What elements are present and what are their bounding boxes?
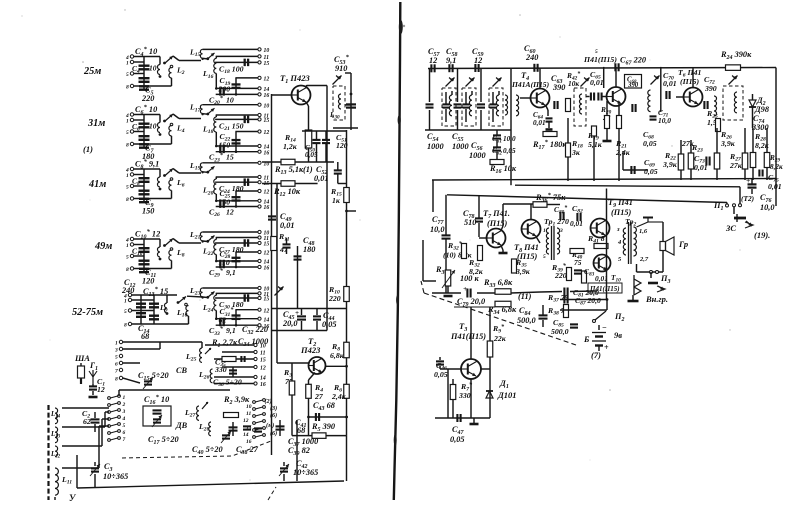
svg-text:3,9к: 3,9к: [515, 267, 531, 276]
svg-text:11: 11: [260, 351, 266, 357]
svg-text:14: 14: [260, 376, 266, 382]
svg-text:Д101: Д101: [497, 390, 517, 400]
svg-text:0,01: 0,01: [314, 174, 329, 183]
svg-text:10: 10: [264, 103, 270, 109]
svg-text:0,01: 0,01: [570, 219, 583, 228]
svg-text:5: 5: [115, 355, 118, 361]
svg-text:1,6: 1,6: [639, 228, 648, 235]
svg-text:8: 8: [126, 85, 129, 91]
svg-text:12: 12: [474, 56, 482, 65]
svg-text:7: 7: [115, 369, 118, 375]
svg-text:9в: 9в: [614, 330, 622, 340]
svg-text:12: 12: [264, 130, 270, 136]
svg-text:47: 47: [279, 245, 289, 254]
svg-text:68: 68: [297, 426, 306, 435]
svg-text:5: 5: [123, 423, 126, 429]
svg-text:390: 390: [552, 83, 565, 92]
svg-text:240: 240: [525, 53, 538, 62]
svg-text:1000: 1000: [427, 142, 444, 151]
svg-text:П423: П423: [300, 345, 321, 355]
svg-text:10,0: 10,0: [503, 135, 516, 143]
svg-text:0,01: 0,01: [663, 79, 677, 88]
svg-text:2,4к: 2,4к: [331, 392, 347, 401]
svg-text:500,0: 500,0: [551, 327, 569, 336]
svg-text:8,2к: 8,2к: [770, 163, 783, 171]
svg-text:22к: 22к: [493, 334, 507, 343]
svg-text:Вн.гр.: Вн.гр.: [645, 294, 668, 304]
svg-text:10,0: 10,0: [430, 225, 445, 234]
svg-text:12: 12: [260, 366, 266, 372]
svg-text:15: 15: [260, 358, 266, 364]
svg-text:Гр: Гр: [678, 239, 688, 249]
svg-text:+: +: [295, 309, 299, 317]
svg-text:16: 16: [260, 382, 266, 388]
svg-text:1000: 1000: [452, 142, 469, 151]
svg-text:П41А(П15): П41А(П15): [511, 80, 550, 89]
svg-text:15: 15: [226, 153, 234, 162]
svg-text:0,05: 0,05: [503, 147, 516, 155]
svg-text:8: 8: [115, 377, 118, 383]
svg-text:1,2к: 1,2к: [283, 142, 298, 151]
svg-text:20,0: 20,0: [282, 319, 298, 328]
svg-text:14: 14: [243, 432, 249, 438]
svg-text:12: 12: [243, 418, 249, 424]
svg-text:0,05: 0,05: [322, 320, 337, 329]
svg-text:5: 5: [124, 309, 127, 315]
svg-text:8: 8: [126, 197, 129, 203]
svg-text:5: 5: [543, 254, 546, 260]
svg-text:1: 1: [115, 341, 118, 347]
svg-text:10,0: 10,0: [760, 203, 775, 212]
svg-text:(1): (1): [303, 165, 313, 174]
svg-text:0,05: 0,05: [434, 370, 448, 379]
svg-text:10к: 10к: [568, 79, 579, 88]
svg-text:3,9к: 3,9к: [662, 160, 678, 169]
svg-text:0,05: 0,05: [643, 139, 657, 148]
svg-text:1: 1: [124, 299, 127, 305]
svg-text:10: 10: [149, 64, 157, 73]
svg-text:(П15): (П15): [487, 219, 508, 228]
svg-text:з: з: [616, 226, 620, 233]
svg-text:3: 3: [114, 348, 118, 354]
svg-text:5,1к: 5,1к: [588, 140, 603, 149]
svg-text:(2): (2): [265, 398, 272, 405]
svg-text:1: 1: [126, 173, 129, 179]
svg-text:120: 120: [142, 277, 154, 286]
svg-text:10: 10: [246, 404, 252, 410]
svg-text:41м: 41м: [88, 179, 106, 190]
svg-text:1к: 1к: [332, 196, 341, 205]
svg-text:0,01: 0,01: [533, 119, 546, 127]
svg-text:12: 12: [226, 208, 234, 217]
svg-text:1: 1: [126, 119, 129, 125]
svg-text:СВ: СВ: [176, 366, 188, 375]
svg-text:12: 12: [264, 308, 270, 314]
svg-text:15: 15: [264, 297, 270, 303]
svg-text:500,0: 500,0: [517, 316, 536, 325]
svg-text:330: 330: [458, 391, 471, 400]
svg-text:3к: 3к: [571, 148, 581, 157]
svg-text:16: 16: [264, 205, 270, 211]
svg-text:330: 330: [214, 365, 227, 374]
svg-text:0,01: 0,01: [280, 221, 295, 230]
svg-text:9,1: 9,1: [446, 56, 456, 65]
svg-text:(Т2): (Т2): [741, 194, 754, 203]
svg-text:+: +: [746, 176, 750, 185]
svg-text:(П15): (П15): [611, 208, 632, 217]
svg-text:5: 5: [595, 49, 598, 55]
svg-text:П41(П15): П41(П15): [450, 332, 486, 341]
svg-text:3: 3: [122, 409, 126, 415]
svg-text:1: 1: [126, 243, 129, 249]
svg-text:14: 14: [264, 317, 270, 323]
svg-text:ЗС: ЗС: [725, 223, 736, 233]
svg-text:12: 12: [264, 190, 270, 196]
svg-text:10: 10: [149, 122, 157, 131]
svg-text:5: 5: [126, 185, 129, 191]
svg-text:−: −: [602, 323, 607, 332]
svg-text:31м: 31м: [87, 118, 105, 129]
svg-text:1: 1: [123, 395, 126, 401]
svg-text:6,8к: 6,8к: [330, 351, 345, 360]
svg-text:ША: ША: [74, 354, 90, 363]
svg-text:10: 10: [226, 95, 234, 104]
svg-text:8: 8: [126, 143, 129, 149]
svg-text:15: 15: [264, 61, 270, 67]
svg-text:5: 5: [126, 130, 129, 136]
svg-text:100 к: 100 к: [460, 274, 480, 283]
svg-text:15: 15: [264, 118, 270, 124]
svg-text:220: 220: [328, 294, 341, 303]
svg-text:0,01: 0,01: [590, 78, 604, 87]
svg-text:(м): (м): [266, 422, 274, 429]
svg-text:12: 12: [264, 251, 270, 257]
svg-text:180: 180: [303, 245, 315, 254]
svg-text:2: 2: [122, 402, 126, 408]
svg-text:15: 15: [264, 242, 270, 248]
svg-text:1: 1: [543, 228, 546, 234]
svg-text:(П15): (П15): [680, 77, 699, 86]
svg-text:12: 12: [429, 56, 437, 65]
svg-text:510: 510: [464, 218, 476, 227]
svg-text:910: 910: [335, 64, 347, 73]
svg-text:8: 8: [126, 267, 129, 273]
svg-text:0,05: 0,05: [450, 435, 465, 444]
svg-text:27: 27: [314, 392, 324, 401]
svg-text:16: 16: [264, 93, 270, 99]
svg-text:62: 62: [83, 417, 91, 426]
svg-text:2,7: 2,7: [639, 256, 649, 263]
svg-text:220: 220: [141, 94, 154, 103]
svg-text:27к: 27к: [729, 161, 743, 170]
svg-text:8: 8: [124, 323, 127, 329]
svg-text:(19).: (19).: [754, 230, 770, 240]
svg-text:390: 390: [704, 84, 717, 93]
svg-text:68: 68: [141, 332, 150, 341]
svg-text:3: 3: [559, 228, 563, 234]
svg-text:(7): (7): [591, 350, 601, 360]
svg-text:0,05: 0,05: [644, 167, 658, 176]
svg-text:1000: 1000: [469, 151, 486, 160]
svg-text:25м: 25м: [83, 66, 101, 77]
svg-text:6: 6: [115, 362, 118, 368]
svg-text:240: 240: [121, 286, 134, 295]
svg-text:150: 150: [142, 207, 154, 216]
svg-text:4: 4: [122, 416, 126, 422]
svg-text:П41(П15): П41(П15): [589, 285, 620, 293]
svg-text:9,1: 9,1: [226, 326, 236, 335]
svg-text:12: 12: [97, 385, 105, 394]
svg-text:16: 16: [264, 266, 270, 272]
svg-text:52-75м: 52-75м: [72, 307, 103, 318]
svg-text:1: 1: [126, 61, 129, 67]
svg-text:Б: Б: [583, 334, 590, 344]
svg-text:+: +: [604, 343, 609, 352]
svg-text:16: 16: [264, 150, 270, 156]
svg-text:10÷365: 10÷365: [103, 472, 128, 481]
svg-text:3,9к: 3,9к: [720, 139, 736, 148]
svg-text:ДВ: ДВ: [175, 421, 188, 430]
svg-text:П41(П15): П41(П15): [583, 55, 617, 64]
svg-text:0,01: 0,01: [768, 182, 782, 191]
svg-text:(1): (1): [83, 144, 93, 154]
svg-text:390: 390: [627, 82, 639, 89]
svg-text:12: 12: [264, 77, 270, 83]
svg-text:11: 11: [246, 411, 251, 417]
svg-text:5: 5: [126, 255, 129, 261]
svg-text:6: 6: [123, 430, 126, 436]
svg-text:10: 10: [264, 48, 270, 54]
svg-text:Д98: Д98: [754, 105, 770, 114]
svg-text:49м: 49м: [94, 241, 112, 252]
svg-text:9,1: 9,1: [226, 268, 236, 277]
svg-text:75: 75: [574, 258, 582, 267]
svg-text:10: 10: [260, 344, 266, 350]
svg-text:10,0: 10,0: [658, 116, 671, 125]
svg-text:7: 7: [123, 437, 126, 443]
svg-text:220: 220: [554, 271, 567, 280]
svg-text:5: 5: [126, 72, 129, 78]
